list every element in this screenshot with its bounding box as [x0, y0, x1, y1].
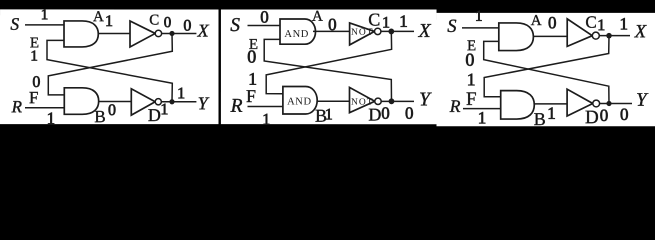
svg-text:1: 1 [382, 15, 390, 32]
svg-text:F: F [246, 86, 256, 106]
svg-text:1: 1 [47, 109, 56, 128]
svg-text:S: S [447, 17, 456, 37]
svg-text:1: 1 [262, 111, 270, 128]
svg-text:F: F [466, 89, 477, 110]
svg-text:A: A [531, 13, 542, 29]
svg-text:1: 1 [160, 101, 168, 118]
svg-text:D: D [368, 105, 381, 125]
svg-text:1: 1 [399, 12, 408, 31]
svg-text:1: 1 [325, 106, 333, 123]
svg-text:1: 1 [597, 17, 605, 34]
svg-text:1: 1 [467, 69, 476, 89]
svg-text:1: 1 [547, 104, 556, 123]
svg-text:A: A [93, 9, 104, 25]
svg-text:B: B [534, 109, 546, 129]
svg-text:C: C [149, 13, 159, 29]
svg-text:1: 1 [105, 13, 113, 30]
svg-text:0: 0 [260, 7, 269, 26]
svg-text:S: S [10, 14, 19, 34]
svg-text:0: 0 [405, 104, 414, 123]
svg-text:B: B [94, 107, 105, 126]
svg-text:0: 0 [247, 46, 256, 66]
svg-text:AND: AND [287, 96, 312, 107]
svg-text:1: 1 [177, 85, 185, 102]
svg-text:0: 0 [164, 15, 172, 31]
svg-text:0: 0 [620, 105, 629, 124]
svg-text:C: C [368, 10, 380, 30]
svg-text:0: 0 [600, 106, 609, 125]
svg-text:F: F [29, 88, 38, 107]
svg-text:X: X [197, 21, 210, 41]
svg-text:1: 1 [41, 7, 49, 23]
svg-text:R: R [230, 96, 243, 117]
svg-text:D: D [148, 105, 161, 125]
svg-text:0: 0 [465, 50, 474, 70]
svg-text:X: X [634, 22, 647, 42]
svg-text:0: 0 [381, 104, 390, 123]
svg-text:AND: AND [284, 29, 309, 40]
svg-text:D: D [585, 107, 599, 128]
svg-text:1: 1 [620, 14, 629, 33]
svg-text:0: 0 [108, 102, 116, 119]
svg-text:0: 0 [183, 17, 191, 34]
svg-text:X: X [418, 21, 432, 42]
svg-text:R: R [449, 96, 461, 116]
svg-text:0: 0 [548, 13, 557, 32]
svg-text:1: 1 [475, 9, 483, 25]
svg-text:1: 1 [30, 49, 38, 65]
svg-text:C: C [585, 13, 596, 32]
svg-text:S: S [230, 15, 240, 36]
svg-text:A: A [312, 9, 323, 25]
svg-text:R: R [11, 97, 23, 116]
svg-text:1: 1 [478, 108, 487, 127]
svg-text:0: 0 [328, 15, 337, 34]
